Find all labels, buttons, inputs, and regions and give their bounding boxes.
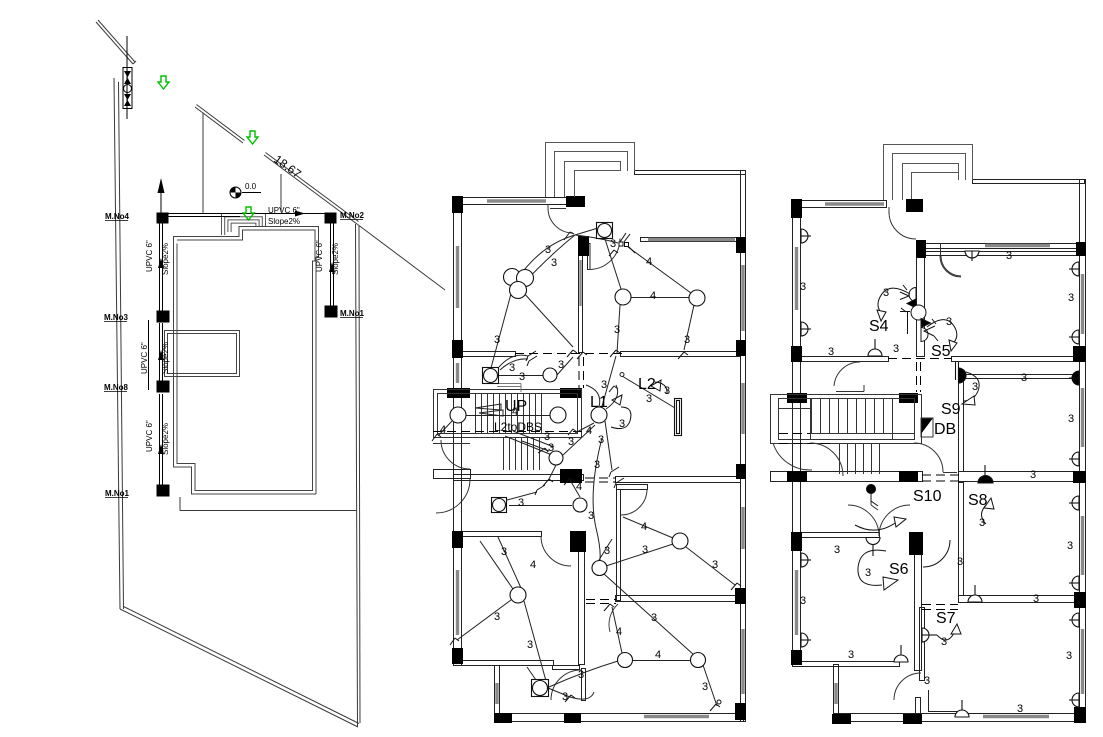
svg-text:3: 3 [604,545,610,557]
svg-text:3: 3 [865,567,871,579]
svg-text:3: 3 [946,316,952,328]
svg-text:3: 3 [551,257,557,269]
svg-text:4: 4 [576,481,582,493]
svg-text:3: 3 [558,359,564,371]
svg-text:3: 3 [527,639,533,651]
svg-text:3: 3 [828,346,834,358]
svg-text:3: 3 [800,281,806,293]
svg-text:UPVC 6": UPVC 6" [315,240,324,272]
svg-text:3: 3 [642,544,648,556]
svg-text:UPVC 6": UPVC 6" [140,342,149,374]
svg-text:3: 3 [664,385,670,397]
svg-text:3: 3 [1033,593,1039,605]
svg-text:L1: L1 [590,394,608,411]
svg-text:3: 3 [834,544,840,556]
svg-text:3: 3 [578,669,584,681]
svg-text:4: 4 [440,424,446,436]
svg-text:L2: L2 [638,376,656,393]
svg-text:4: 4 [586,425,592,437]
svg-text:3: 3 [562,691,568,703]
svg-text:UPVC 6": UPVC 6" [145,240,154,272]
svg-text:4: 4 [616,626,622,638]
svg-text:3: 3 [1066,650,1072,662]
svg-text:3: 3 [924,675,930,687]
svg-text:4: 4 [646,256,652,268]
svg-text:Slope2%: Slope2% [331,243,340,275]
svg-text:S4: S4 [869,318,889,335]
svg-text:3: 3 [651,612,657,624]
svg-text:3: 3 [519,371,525,383]
svg-text:L2toDBS: L2toDBS [494,420,542,434]
svg-text:0.0: 0.0 [245,182,257,191]
svg-text:3: 3 [568,436,574,448]
svg-text:3: 3 [594,459,600,471]
svg-text:3: 3 [972,381,978,393]
svg-text:S8: S8 [968,492,988,509]
svg-text:S10: S10 [913,488,942,505]
svg-text:3: 3 [712,559,718,571]
svg-text:3: 3 [588,510,594,522]
svg-text:3: 3 [598,434,604,446]
svg-text:3: 3 [957,556,963,568]
svg-text:Slope2%: Slope2% [161,423,170,455]
svg-text:3: 3 [610,238,616,250]
svg-text:3: 3 [684,334,690,346]
svg-text:M.No8: M.No8 [104,383,129,392]
svg-text:3: 3 [1068,292,1074,304]
svg-text:3: 3 [1067,540,1073,552]
svg-text:3: 3 [501,546,507,558]
svg-text:S7: S7 [936,610,956,627]
svg-text:3: 3 [509,362,515,374]
svg-text:S9: S9 [941,401,961,418]
svg-text:4: 4 [650,290,656,302]
svg-text:3: 3 [646,393,652,405]
svg-text:3: 3 [848,649,854,661]
svg-text:3: 3 [1006,250,1012,262]
svg-text:M.No4: M.No4 [105,212,130,221]
svg-text:3: 3 [1030,469,1036,481]
svg-text:Slope2%: Slope2% [161,342,170,374]
svg-text:Slope2%: Slope2% [161,243,170,275]
svg-text:3: 3 [619,418,625,430]
svg-text:4: 4 [530,559,536,571]
svg-text:3: 3 [979,517,985,529]
svg-text:4: 4 [512,406,518,418]
svg-text:4: 4 [641,521,647,533]
svg-text:S5: S5 [931,343,951,360]
svg-text:3: 3 [548,442,554,454]
svg-text:Slope2%: Slope2% [268,217,300,226]
svg-text:3: 3 [893,343,899,355]
svg-text:M.No3: M.No3 [104,313,129,322]
svg-text:3: 3 [1021,372,1027,384]
svg-text:3: 3 [941,636,947,648]
svg-text:UPVC 6": UPVC 6" [145,420,154,452]
svg-text:3: 3 [494,611,500,623]
svg-text:3: 3 [494,334,500,346]
svg-text:4: 4 [655,649,661,661]
svg-text:M.No2: M.No2 [340,211,365,220]
svg-text:M.No1: M.No1 [105,489,130,498]
svg-text:3: 3 [1017,703,1023,715]
svg-text:M.No1: M.No1 [340,309,365,318]
svg-text:3: 3 [1068,413,1074,425]
svg-text:3: 3 [518,497,524,509]
svg-text:3: 3 [545,244,551,256]
svg-text:DB: DB [934,421,956,438]
svg-text:3: 3 [702,681,708,693]
svg-text:3: 3 [883,287,889,299]
svg-text:S6: S6 [889,561,909,578]
svg-text:3: 3 [614,324,620,336]
svg-text:3: 3 [601,379,607,391]
svg-text:3: 3 [800,595,806,607]
svg-text:UPVC 6": UPVC 6" [268,206,300,215]
